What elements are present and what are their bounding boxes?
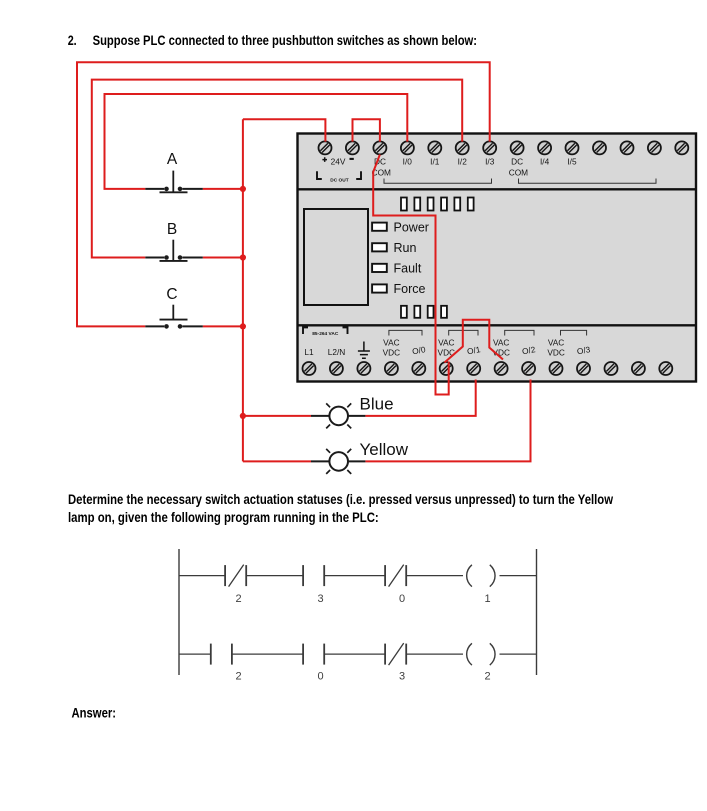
svg-text:A: A xyxy=(167,151,178,168)
svg-text:DC: DC xyxy=(511,156,523,166)
svg-text:L1: L1 xyxy=(304,347,314,357)
svg-text:DC OUT: DC OUT xyxy=(330,178,348,184)
svg-text:C: C xyxy=(166,286,177,303)
svg-text:VAC: VAC xyxy=(493,337,509,347)
svg-text:VAC: VAC xyxy=(438,337,454,347)
svg-text:I/4: I/4 xyxy=(540,156,550,166)
svg-text:Determine the necessary switch: Determine the necessary switch actuation… xyxy=(68,492,614,508)
svg-text:VAC: VAC xyxy=(383,337,399,347)
svg-text:I/1: I/1 xyxy=(430,156,440,166)
svg-text:B: B xyxy=(167,221,177,238)
svg-text:85-264 VAC: 85-264 VAC xyxy=(312,331,339,337)
svg-text:Suppose PLC connected to three: Suppose PLC connected to three pushbutto… xyxy=(93,33,477,49)
svg-text:VDC: VDC xyxy=(547,348,565,358)
svg-text:1: 1 xyxy=(484,593,490,605)
svg-text:Run: Run xyxy=(394,241,417,255)
svg-text:3: 3 xyxy=(399,671,405,683)
svg-text:I/5: I/5 xyxy=(567,156,577,166)
svg-text:2: 2 xyxy=(484,671,490,683)
svg-text:Answer:: Answer: xyxy=(72,706,117,722)
svg-text:Fault: Fault xyxy=(394,262,422,276)
svg-text:2.: 2. xyxy=(68,33,77,49)
svg-text:VAC: VAC xyxy=(548,337,564,347)
svg-text:lamp on, given the following p: lamp on, given the following program run… xyxy=(68,510,379,526)
svg-text:3: 3 xyxy=(318,593,324,605)
svg-text:Power: Power xyxy=(394,220,429,234)
svg-text:VDC: VDC xyxy=(383,348,401,358)
svg-text:I/0: I/0 xyxy=(403,156,413,166)
svg-text:Blue: Blue xyxy=(360,395,394,414)
svg-text:2: 2 xyxy=(236,671,242,683)
svg-text:24V: 24V xyxy=(331,156,346,166)
svg-text:Force: Force xyxy=(394,282,426,296)
svg-text:I/2: I/2 xyxy=(458,156,468,166)
svg-text:0: 0 xyxy=(399,593,405,605)
svg-text:2: 2 xyxy=(236,593,242,605)
svg-text:I/3: I/3 xyxy=(485,156,495,166)
svg-text:COM: COM xyxy=(509,168,528,178)
svg-text:L2/N: L2/N xyxy=(328,347,346,357)
svg-text:Yellow: Yellow xyxy=(360,440,409,459)
svg-text:0: 0 xyxy=(318,671,324,683)
